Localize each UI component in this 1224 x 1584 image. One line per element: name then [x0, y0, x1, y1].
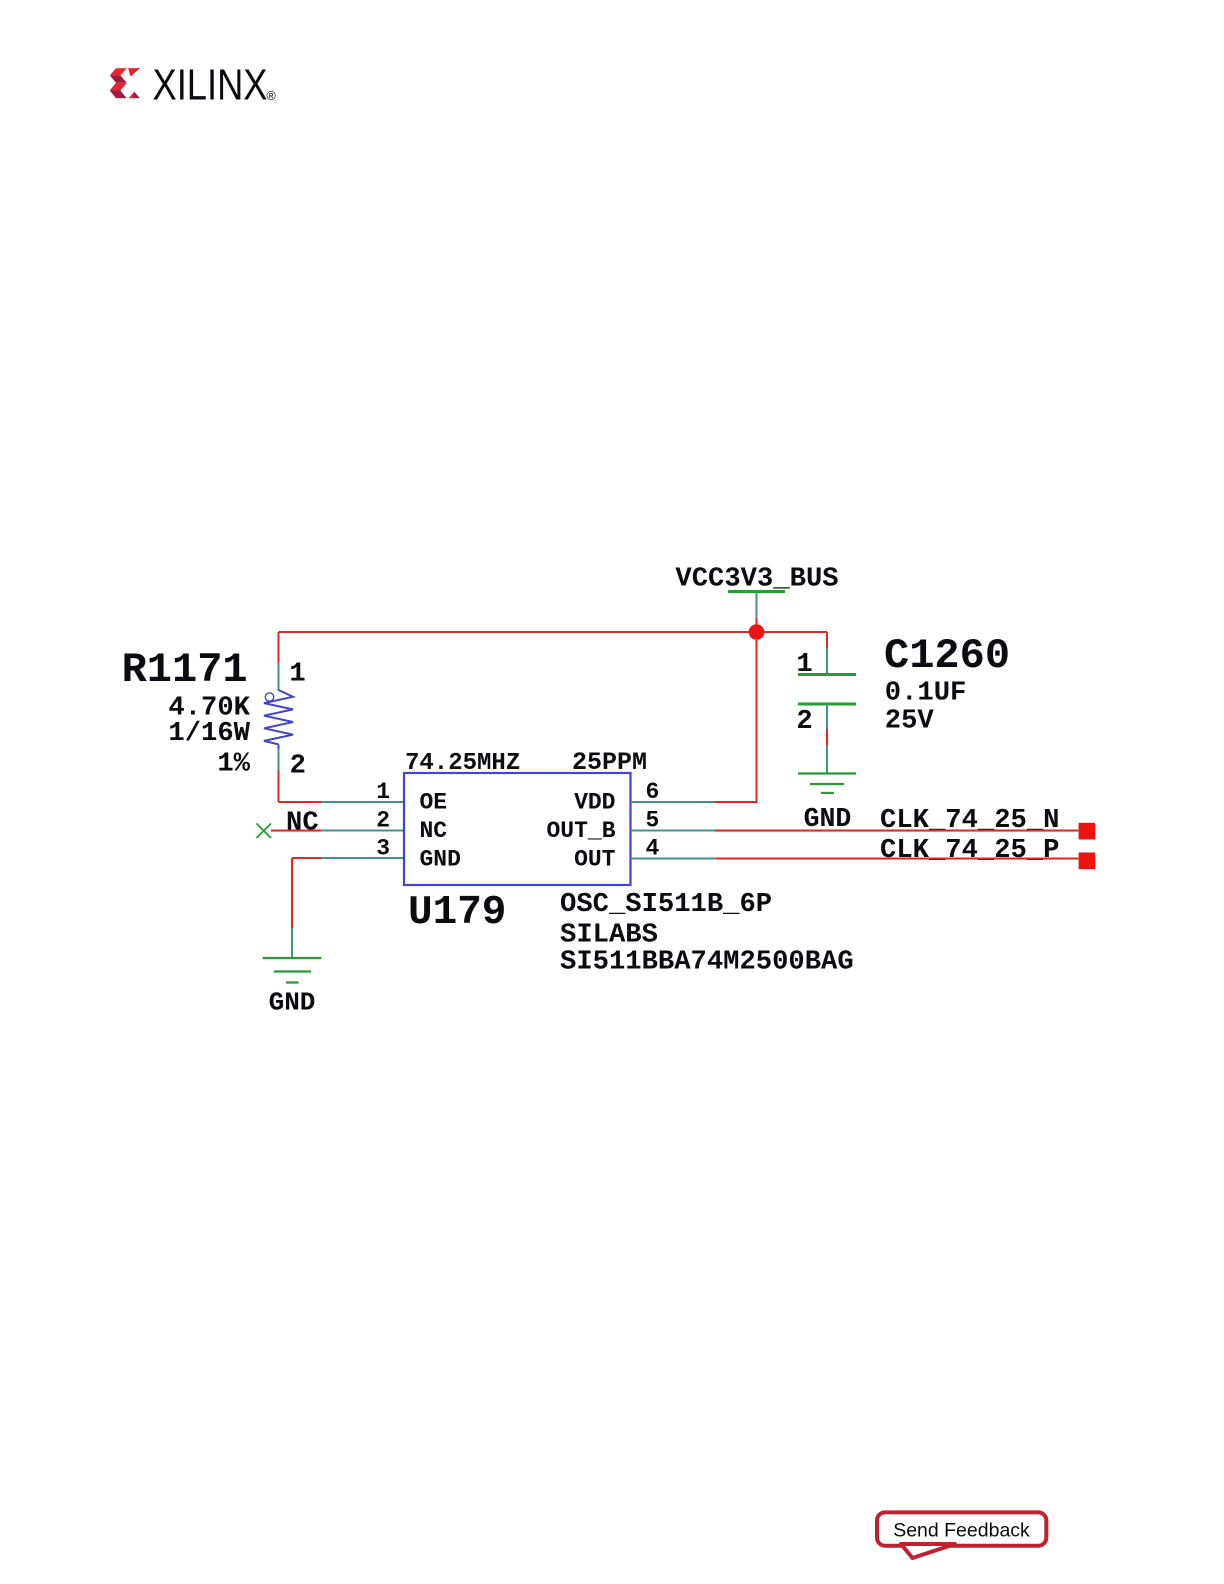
U179 label 74.25MHZ	[405, 750, 520, 777]
svg-text:2: 2	[290, 751, 306, 782]
C1260 value 25V	[885, 706, 935, 737]
U179 pin number 1	[376, 779, 390, 805]
wire C1260 pin 2 to ground (teal red teal)	[826, 704, 828, 774]
svg-text:2: 2	[796, 706, 812, 737]
U179 pin number 3	[376, 836, 390, 862]
C1260 pin 1 number	[796, 649, 812, 680]
R1171 value 4.70K	[168, 693, 250, 724]
wire VCC to junction (red)	[756, 618, 758, 632]
svg-text:GND: GND	[420, 846, 461, 872]
U179 pin number 2	[376, 808, 390, 834]
svg-text:SI511BBA74M2500BAG: SI511BBA74M2500BAG	[560, 947, 854, 978]
wire VDD pin 6 stub (teal)	[631, 801, 715, 803]
svg-text:R1171: R1171	[122, 646, 248, 694]
U179 pin name OE	[420, 790, 448, 816]
C1260 reference label	[884, 632, 1010, 680]
U179 pin number 5	[646, 808, 660, 834]
U179 part number SI511BBA74M2500BAG	[560, 947, 854, 978]
power symbol VCC3V3_BUS bar	[728, 590, 785, 593]
wire junction down to VDD (red)	[715, 640, 757, 802]
R1171 pin 1 number	[289, 659, 305, 690]
resistor R1171	[264, 690, 293, 749]
Xilinx logo mark	[110, 68, 140, 98]
svg-text:VDD: VDD	[574, 790, 615, 816]
U179 label 25PPM	[572, 748, 647, 777]
C1260 value 0.1UF	[885, 678, 967, 709]
svg-text:VCC3V3_BUS: VCC3V3_BUS	[675, 564, 838, 595]
svg-text:25PPM: 25PPM	[572, 748, 647, 777]
svg-text:C1260: C1260	[884, 632, 1010, 680]
Send Feedback button	[877, 1512, 1046, 1558]
op IC U179 body	[404, 773, 631, 885]
wire top bus horizontal (red)	[279, 631, 828, 633]
svg-text:0.1UF: 0.1UF	[885, 678, 967, 709]
svg-text:CLK_74_25_P: CLK_74_25_P	[880, 835, 1059, 866]
Xilinx wordmark	[153, 61, 277, 110]
svg-text:U179: U179	[408, 890, 506, 936]
junction dot on VCC3V3_BUS node	[749, 624, 765, 640]
GND label left	[269, 988, 316, 1018]
net CLK_74_25_N label	[880, 805, 1059, 836]
U179 pin number 6	[646, 779, 660, 805]
svg-text:2: 2	[376, 808, 390, 834]
U179 vendor SILABS	[560, 920, 658, 951]
wire OUT_B pin 5 to port (teal then red)	[631, 830, 1079, 832]
capacitor C1260	[798, 675, 856, 705]
wire R1171 to OE pin (red then teal)	[279, 801, 405, 803]
svg-text:25V: 25V	[885, 706, 935, 737]
port CLK_74_25_N square	[1079, 823, 1096, 840]
wire GND vertical (red then teal)	[291, 858, 293, 958]
svg-text:OE: OE	[420, 790, 448, 816]
U179 pin name NC	[420, 818, 448, 844]
svg-text:OSC_SI511B_6P: OSC_SI511B_6P	[560, 889, 772, 920]
svg-text:1: 1	[796, 649, 812, 680]
wire resistor bottom (teal+red)	[278, 749, 280, 802]
svg-text:74.25MHZ: 74.25MHZ	[405, 750, 520, 777]
svg-text:XILINX: XILINX	[153, 61, 268, 110]
R1171 value 1/16W	[168, 718, 250, 749]
U179 pin name GND	[420, 846, 461, 872]
net NC label	[286, 808, 319, 839]
R1171 value 1%	[217, 748, 250, 779]
U179 part OSC_SI511B_6P	[560, 889, 772, 920]
svg-text:®: ®	[267, 89, 277, 103]
svg-text:1%: 1%	[217, 748, 250, 779]
U179 pin number 4	[646, 836, 660, 862]
wire OUT pin 4 to port (teal then red)	[631, 858, 1079, 860]
svg-text:OUT: OUT	[574, 846, 616, 872]
no-connect marker X	[257, 824, 272, 839]
C1260 pin 2 number	[796, 706, 812, 737]
wire GND pin 3 horizontal (red then teal)	[292, 857, 404, 859]
net VCC3V3_BUS label	[675, 564, 838, 595]
GND label right	[804, 804, 852, 834]
wire bus to C1260 (red)	[826, 632, 828, 648]
U179 reference label	[408, 890, 506, 936]
U179 pin name OUT_B	[546, 818, 615, 844]
svg-text:1: 1	[376, 779, 390, 805]
R1171 reference label	[122, 646, 248, 694]
svg-text:NC: NC	[286, 808, 319, 839]
svg-text:1: 1	[289, 659, 305, 690]
wire VCC stub (teal)	[756, 593, 758, 618]
svg-text:3: 3	[376, 836, 390, 862]
wire C1260 pin 1 (teal)	[826, 648, 828, 675]
svg-text:NC: NC	[420, 818, 448, 844]
U179 pin name OUT	[574, 846, 616, 872]
svg-text:GND: GND	[269, 988, 316, 1018]
ground symbol left	[263, 958, 322, 983]
svg-text:OUT_B: OUT_B	[546, 818, 615, 844]
R1171 pin 2 number	[290, 751, 306, 782]
svg-text:Send Feedback: Send Feedback	[893, 1520, 1030, 1542]
port CLK_74_25_P square	[1079, 853, 1096, 870]
wire NC to pin 2 (red then teal)	[271, 830, 404, 832]
U179 pin name VDD	[574, 790, 615, 816]
ground symbol right	[798, 774, 856, 794]
net CLK_74_25_P label	[880, 835, 1059, 866]
svg-text:1/16W: 1/16W	[168, 718, 250, 749]
wire resistor top (red+teal)	[278, 632, 280, 691]
